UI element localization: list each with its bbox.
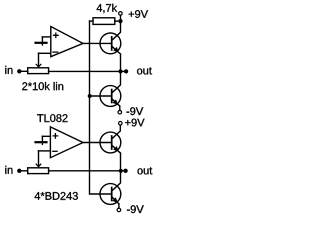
node: +9V junction dot (118, 19, 122, 23)
ground (U1a + input) (41, 37, 43, 45)
op-amp U1b plus sign (53, 134, 57, 138)
transistor Q4 collector (from out2 junction) (112, 171, 121, 191)
transistor Q3 base bar (111, 136, 113, 149)
wire: pot right to out junction (feedback rail) (49, 70, 127, 72)
wire: in2 to pot2 (19, 170, 27, 172)
transistor Q1 circle (100, 33, 121, 54)
label -9V (bottom) (127, 205, 144, 213)
terminal +9V (middle) (119, 122, 123, 126)
transistor Q4 base bar (111, 188, 113, 201)
terminal out dot (top) (124, 69, 128, 73)
wire: U1b output to Q3 base (83, 142, 111, 144)
transistor Q2 emitter (112, 99, 120, 106)
wire: U1a - input from pot wiper (39, 52, 51, 54)
transistor Q1 emitter (112, 46, 121, 54)
transistor Q1 collector (112, 21, 121, 40)
label in (top) (5, 66, 12, 74)
wire: U1a output to Q1 base (83, 42, 111, 44)
terminal -9V (middle) (118, 110, 122, 114)
wire: common drive rail (vertical) from 4,7k down to Q4 base (90, 21, 111, 194)
op-amp U1b minus sign (53, 150, 57, 152)
label +9V (top) (129, 10, 148, 18)
transistor Q2 circle (100, 86, 121, 107)
wiper arrow P2 (36, 164, 41, 167)
transistor Q3 emitter (112, 145, 121, 153)
label 4,7k (97, 4, 118, 13)
node: out junction (bottom) (119, 169, 123, 173)
wiper arrow P1 (36, 64, 41, 67)
terminal in dot (bottom) (17, 169, 21, 173)
wire: U1b + input (42, 135, 50, 137)
label out (bottom) (138, 167, 153, 174)
label TL082 (37, 114, 67, 122)
terminal -9V (bottom) (117, 208, 121, 212)
wire: in to pot (19, 70, 27, 72)
terminal +9V (top) (119, 12, 123, 16)
terminal in dot (top) (17, 69, 21, 73)
wire: U1a + input (42, 36, 50, 38)
label -9V (middle) (127, 107, 144, 115)
label 2*10k lin (22, 82, 63, 90)
wire: 4,7k right lead (115, 20, 121, 22)
potentiometer P2 body (28, 168, 49, 174)
transistor Q4 emitter (112, 197, 119, 204)
label 4*BD243 (35, 192, 78, 200)
ground (U1b + input) (41, 136, 43, 144)
node: Q2 base junction dot (88, 94, 92, 98)
op-amp U1b triangle (50, 127, 83, 158)
node: out junction (top) (118, 69, 122, 73)
potentiometer P1 body 2*10k lin (28, 68, 49, 74)
wire: +9V terminal down to Q3 collector (112, 125, 120, 138)
op-amp U1a triangle (51, 27, 83, 57)
op-amp U1a plus sign (54, 33, 59, 37)
wire: Q2 base (90, 95, 111, 97)
terminal out dot (bottom) (123, 169, 127, 173)
label out (top) (137, 67, 152, 74)
transistor Q1 base bar (111, 37, 113, 50)
transistor Q4 circle (100, 184, 121, 205)
wire: junction to +9V terminal (120, 15, 122, 19)
wire: pot2 right to out2 junction (49, 170, 126, 172)
resistor R1 4,7k body (93, 18, 115, 25)
op-amp U1a minus sign (53, 51, 58, 53)
transistor Q2 base bar (111, 90, 113, 103)
transistor Q3 circle (100, 132, 121, 153)
wire: 4,7k left lead (90, 20, 94, 22)
transistor Q2 collector (up to out junction) (112, 71, 121, 93)
wire: U1b - input from pot wiper (39, 150, 51, 152)
label in (bottom) (5, 166, 12, 174)
label +9V (middle) (125, 119, 144, 127)
